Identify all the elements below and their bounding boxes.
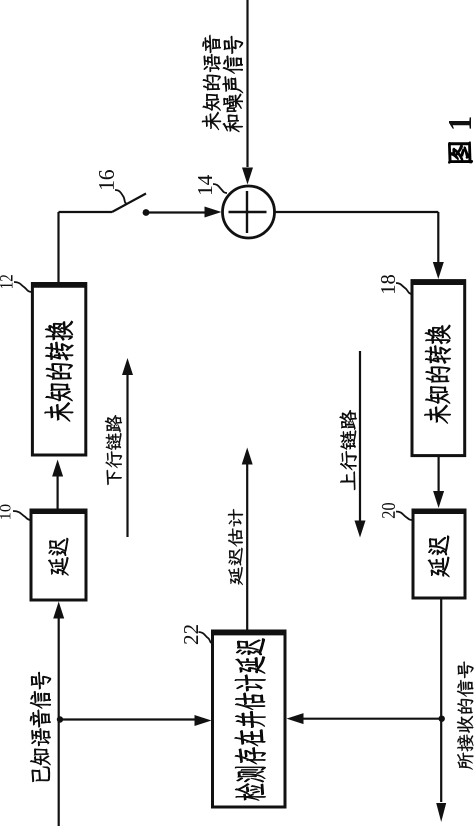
arrowhead into box10: [53, 602, 64, 619]
box12 text: [45, 321, 74, 422]
label: unknown speech line1: [202, 35, 221, 130]
label 14: [198, 175, 212, 194]
leader squiggle 12: [14, 282, 32, 292]
wire: received signal out: [440, 598, 442, 802]
box18 unknown transform: [412, 281, 465, 456]
box18 text: [424, 325, 450, 424]
arrowhead received signal: [436, 803, 446, 822]
adder U14 circle: [223, 186, 275, 238]
wire: box10 to box12: [56, 472, 58, 510]
downlink direction arrow: [126, 373, 128, 537]
wire: branch down to box22: [60, 718, 197, 720]
label: known speech signal: [30, 672, 51, 782]
label: delay estimate: [228, 509, 243, 585]
box12 unknown transform: [32, 284, 85, 456]
wire: unknown speech + noise input: [246, 0, 248, 167]
label 22: [184, 625, 198, 644]
label: received signal: [457, 661, 474, 769]
arrowhead into box22 bottom: [287, 713, 304, 724]
label: uplink: [340, 410, 357, 490]
label: noise line2: [223, 36, 243, 132]
arrowhead into adder top: [205, 207, 222, 218]
box22 detect/estimate: [213, 631, 286, 807]
wire: branch up to box22: [302, 718, 442, 720]
switch 16 blade: [112, 194, 146, 213]
wire: known speech input: [58, 616, 60, 826]
wire: delay estimate output: [246, 464, 248, 631]
arrowhead into box12: [52, 460, 63, 477]
label 12: [0, 275, 12, 288]
leader squiggle 16: [115, 190, 128, 204]
node: junction dot on received wire: [439, 716, 445, 722]
label 10: [0, 505, 10, 519]
adder plus sign: [246, 191, 248, 233]
box20 delay: [413, 510, 465, 598]
arrowhead downlink: [122, 358, 133, 375]
arrowhead into box18: [433, 262, 444, 279]
box10 delay: [31, 510, 86, 600]
arrowhead into box22 top: [195, 715, 212, 726]
leader squiggle 14: [213, 184, 227, 193]
node: junction dot on known-speech wire: [57, 716, 63, 722]
label: downlink: [105, 415, 122, 485]
box22 text: [235, 638, 266, 800]
wire: box18 to box20: [438, 456, 440, 492]
wire: box12 to switch corner: [57, 212, 59, 284]
wire: switch to adder: [148, 211, 206, 213]
arrowhead into box20: [433, 491, 444, 508]
caption digit 1: [449, 117, 471, 128]
arrowhead uplink: [355, 521, 366, 538]
label 16: [99, 170, 114, 189]
leader squiggle 20: [396, 512, 413, 521]
figure caption 图: [449, 142, 473, 163]
arrowhead into adder right: [242, 168, 253, 185]
switch contact dot: [143, 209, 150, 216]
leader squiggle 22: [199, 632, 213, 643]
wire: adder down and left to box18: [275, 211, 439, 213]
box20 text: [428, 536, 449, 577]
uplink direction arrow: [359, 351, 361, 522]
box10 text: [48, 538, 68, 576]
leader squiggle 10: [13, 511, 31, 520]
arrowhead delay estimate: [242, 448, 253, 465]
label 18: [381, 275, 395, 293]
label 20: [382, 503, 395, 518]
leader squiggle 18: [396, 283, 412, 294]
